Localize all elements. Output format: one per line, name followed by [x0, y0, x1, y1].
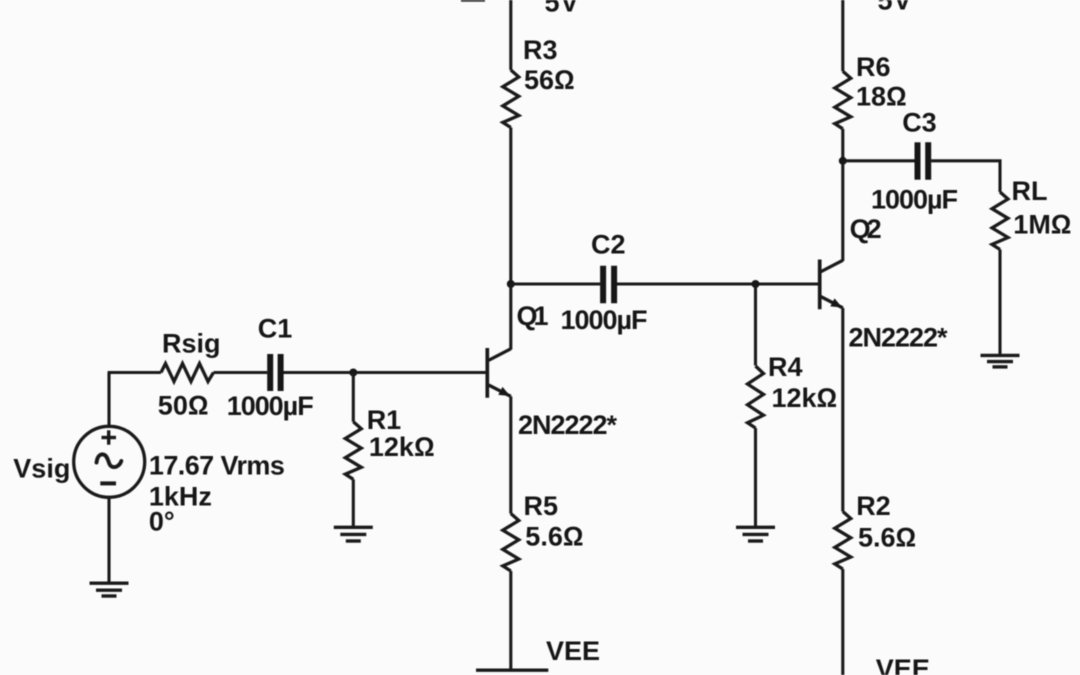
node A junction dot: [349, 369, 357, 377]
wire node B to C2: [511, 282, 600, 285]
Vsig sine symbol: [97, 454, 122, 467]
power VEE bar (center): [476, 669, 548, 672]
wire 5V rail down to R6: [841, 0, 844, 71]
resistor R1: [345, 422, 361, 480]
Vsig minus sign: [100, 481, 116, 485]
Q2 collector wire: [841, 161, 844, 261]
svg-text:Q1: Q1: [517, 301, 549, 331]
wire R2 to VEE: [841, 569, 844, 675]
Q1 collector diagonal: [489, 349, 511, 361]
svg-text:C2: C2: [591, 230, 626, 260]
wire C2 to Q2 base: [617, 282, 820, 285]
wire R3 to collector node: [509, 128, 512, 285]
svg-text:R1: R1: [367, 405, 402, 435]
svg-text:5V: 5V: [545, 0, 579, 18]
source Vsig circle: [74, 426, 145, 497]
wire C1 to Q1 base: [284, 371, 488, 374]
Q1 emitter arrowhead: [498, 387, 510, 396]
capacitor C1: [270, 354, 280, 391]
svg-text:R5: R5: [524, 491, 559, 521]
Vsig plus sign: [102, 430, 117, 444]
Q1 base bar: [485, 348, 489, 398]
wire R6 to collector node: [841, 129, 844, 161]
svg-text:Q2: Q2: [850, 214, 882, 244]
node D junction dot (Q2 collector): [839, 157, 847, 165]
svg-text:RL: RL: [1012, 176, 1048, 206]
node C junction dot (R4 top): [752, 280, 760, 288]
wire Vsig top vertical: [107, 373, 110, 427]
transistor Q1: [487, 284, 511, 398]
svg-text:VEE: VEE: [546, 636, 600, 666]
svg-text:R2: R2: [856, 491, 891, 521]
wire node D to C3: [843, 159, 915, 162]
wire 5V rail down to R3: [509, 0, 512, 70]
svg-text:56Ω: 56Ω: [524, 65, 575, 95]
capacitor C3: [918, 142, 929, 179]
wire Rsig to C1: [214, 371, 268, 374]
svg-text:5V: 5V: [878, 0, 912, 16]
svg-text:R3: R3: [523, 35, 558, 65]
wire R5 to VEE: [509, 571, 512, 669]
wire R4 to ground: [754, 428, 757, 527]
svg-text:12kΩ: 12kΩ: [369, 432, 435, 462]
Q2 emitter diagonal: [821, 297, 843, 308]
wire Vsig to Rsig horizontal: [108, 371, 161, 374]
svg-text:1000µF: 1000µF: [871, 185, 958, 215]
resistor R6: [835, 71, 851, 129]
svg-text:2N2222*: 2N2222*: [518, 410, 617, 440]
wire node A down to R1: [352, 373, 355, 422]
Q1 collector wire: [509, 284, 512, 350]
resistor RL: [992, 192, 1008, 250]
power 5V rail bar fragment top left: [461, 0, 485, 2]
svg-text:Vsig: Vsig: [13, 454, 70, 484]
svg-text:5.6Ω: 5.6Ω: [858, 523, 916, 553]
svg-text:50Ω: 50Ω: [158, 391, 209, 421]
capacitor C2: [603, 266, 614, 303]
wire Q1 emitter to R5: [509, 396, 512, 513]
svg-text:C3: C3: [902, 108, 937, 138]
svg-text:17.67 Vrms: 17.67 Vrms: [149, 450, 285, 480]
Q2 base bar: [818, 260, 822, 310]
svg-text:18Ω: 18Ω: [856, 82, 907, 112]
node B junction dot (Q1 collector): [507, 280, 515, 288]
svg-text:0°: 0°: [149, 507, 175, 537]
resistor R2: [835, 512, 851, 570]
Q1 emitter diagonal: [489, 385, 511, 396]
ground under R4: [736, 527, 775, 541]
svg-text:1MΩ: 1MΩ: [1013, 210, 1071, 240]
resistor R3: [503, 70, 519, 128]
svg-text:VEE: VEE: [876, 654, 930, 675]
svg-text:1000µF: 1000µF: [227, 391, 314, 421]
Q2 collector diagonal: [821, 260, 843, 272]
svg-text:R6: R6: [856, 52, 891, 82]
wire C3 to RL corner: [931, 161, 1000, 192]
ground under Vsig: [90, 583, 129, 596]
wire Q2 emitter to R2: [841, 308, 844, 512]
resistor R4: [748, 366, 764, 428]
wire Vsig bottom to ground: [107, 497, 110, 581]
svg-text:Rsig: Rsig: [162, 329, 221, 359]
ground under R1: [334, 527, 373, 541]
resistor Rsig: [161, 364, 214, 382]
Q2 emitter arrowhead: [830, 298, 842, 307]
svg-text:R4: R4: [768, 352, 803, 382]
svg-text:2N2222*: 2N2222*: [849, 323, 948, 353]
transistor Q2: [820, 161, 843, 309]
wire RL to ground: [998, 250, 1001, 355]
svg-text:1000µF: 1000µF: [561, 305, 648, 335]
wire R1 to ground: [352, 479, 355, 526]
svg-text:12kΩ: 12kΩ: [772, 383, 838, 413]
resistor R5: [503, 514, 519, 572]
svg-text:5.6Ω: 5.6Ω: [525, 522, 583, 552]
svg-text:C1: C1: [258, 314, 293, 344]
wire node C down to R4: [754, 284, 757, 366]
ground under RL: [981, 355, 1020, 367]
